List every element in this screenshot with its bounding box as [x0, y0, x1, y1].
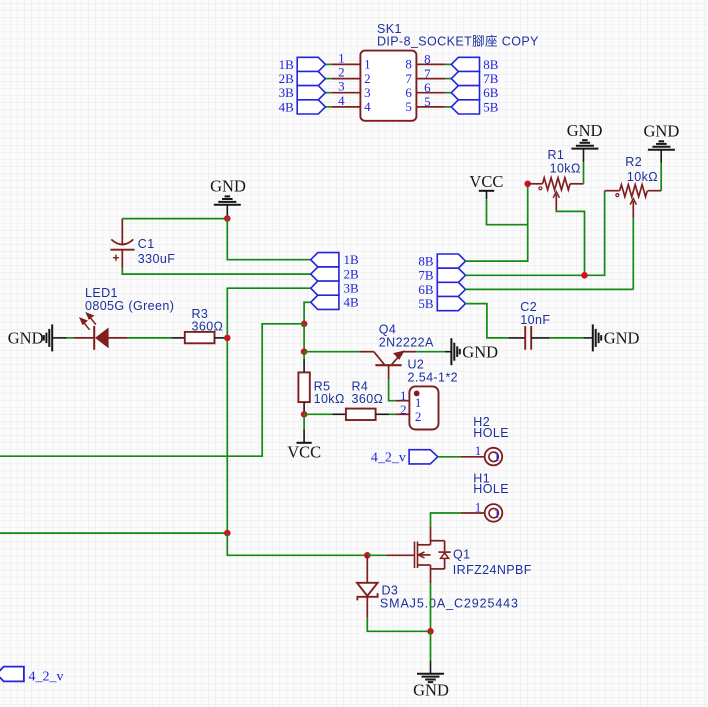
svg-text:1: 1: [400, 388, 407, 403]
svg-text:2B: 2B: [279, 71, 295, 86]
wire 5B jog to C2: [465, 304, 508, 338]
resistor R5: [303, 359, 305, 373]
U2 pin1 marker dot: [414, 391, 420, 397]
wire R2 wiper to 6B: [632, 218, 634, 290]
svg-text:10kΩ: 10kΩ: [314, 392, 345, 406]
wire gate node jog: [227, 533, 367, 555]
svg-text:Q4: Q4: [379, 322, 396, 336]
svg-text:GND: GND: [8, 328, 44, 347]
svg-text:GND: GND: [462, 342, 498, 361]
resistor R4: [332, 413, 346, 415]
svg-text:SMAJ5.0A_C2925443: SMAJ5.0A_C2925443: [380, 597, 519, 611]
diode D3: [366, 555, 368, 583]
wire R2 right to GND: [660, 163, 662, 191]
potentiometer R1: [528, 183, 543, 185]
svg-text:GND: GND: [644, 121, 680, 140]
wire to bottom GND: [430, 631, 432, 660]
port flag 1B at SK1: [297, 57, 325, 71]
wire segments to SK1 right flags: [445, 64, 451, 107]
port flag 8B mid: [437, 254, 465, 268]
LED LED1: [73, 337, 94, 339]
hole H1: [461, 512, 485, 514]
svg-text:4_2_v: 4_2_v: [371, 451, 406, 466]
wire 4B node to left branch: [0, 324, 304, 456]
wire Q4 emitter to GND: [416, 351, 445, 353]
wire left edge to gate node: [0, 532, 227, 534]
port flag 2B mid: [311, 267, 339, 281]
SK1 pin numbers left: [338, 50, 345, 108]
svg-text:360Ω: 360Ω: [352, 392, 384, 406]
svg-text:0805G (Green): 0805G (Green): [85, 299, 174, 313]
svg-text:1: 1: [338, 50, 345, 65]
capacitor C1: [121, 219, 123, 245]
svg-text:8B: 8B: [483, 57, 499, 72]
wire C1 top to GND junction: [122, 218, 227, 220]
port flag 3B at SK1: [297, 86, 325, 100]
svg-text:1B: 1B: [344, 252, 360, 267]
svg-text:3: 3: [364, 85, 371, 100]
svg-text:Q1: Q1: [453, 548, 470, 562]
svg-text:C1: C1: [138, 237, 155, 251]
junction dot R5 bottom node: [301, 411, 308, 418]
port flag 7B mid: [437, 268, 465, 282]
SK1 pin names left: [364, 57, 371, 115]
connector U2 pin 1: [395, 400, 409, 402]
svg-text:5B: 5B: [483, 99, 499, 114]
svg-text:LED1: LED1: [85, 286, 118, 300]
connector SK1 left pins 1-4: [332, 64, 361, 107]
wire GND node down to 1B: [227, 219, 310, 260]
wire node to R4: [304, 413, 332, 415]
wire D3 to bottom node: [367, 618, 430, 631]
connector U2 pin 2: [395, 413, 409, 415]
svg-text:3B: 3B: [279, 85, 295, 100]
SK1 pin numbers right: [424, 52, 431, 110]
svg-text:7B: 7B: [418, 268, 434, 283]
svg-text:4: 4: [338, 93, 345, 108]
svg-text:6B: 6B: [418, 282, 434, 297]
ground symbol top: [214, 196, 241, 204]
net flag 4_2_v bottom left: [0, 667, 24, 682]
svg-text:5: 5: [424, 94, 431, 109]
svg-text:6B: 6B: [483, 85, 499, 100]
hole H2: [461, 456, 485, 458]
wire H1 to Q1 drain: [431, 513, 461, 526]
wire to Q1 gate: [367, 554, 386, 556]
svg-text:1: 1: [475, 443, 482, 458]
svg-text:6: 6: [405, 85, 412, 100]
wire 3B to left vertical: [227, 288, 310, 338]
svg-text:GND: GND: [210, 177, 246, 196]
wire 8B up to R1 node: [465, 184, 527, 261]
svg-text:4_2_v: 4_2_v: [29, 670, 64, 685]
svg-text:D3: D3: [382, 583, 399, 597]
connector SK1 body: [360, 51, 416, 121]
svg-text:R2: R2: [625, 155, 642, 169]
wire GND to LED: [67, 337, 74, 339]
svg-text:2: 2: [364, 71, 371, 86]
svg-text:3B: 3B: [344, 281, 360, 296]
svg-text:8: 8: [405, 57, 412, 72]
wire VCC jog to R1: [487, 199, 528, 225]
port flag 5B at SK1: [451, 100, 479, 114]
potentiometer R2: [605, 190, 620, 192]
junction dot left vertical bottom: [224, 530, 231, 537]
ground symbol GND2: [648, 141, 675, 149]
resistor R3: [171, 337, 185, 339]
svg-text:7: 7: [424, 66, 431, 81]
svg-text:4: 4: [364, 99, 371, 114]
port flag 5B mid: [437, 297, 465, 311]
svg-text:8: 8: [424, 52, 431, 67]
port flag 4B at SK1: [297, 100, 325, 114]
ground symbol left: [44, 324, 52, 351]
svg-text:7B: 7B: [483, 71, 499, 86]
port flag 2B at SK1: [297, 72, 325, 86]
svg-text:8B: 8B: [418, 254, 434, 269]
svg-text:330uF: 330uF: [138, 252, 175, 266]
svg-text:1B: 1B: [279, 57, 295, 72]
port flag 6B at SK1: [451, 86, 479, 100]
svg-text:C2: C2: [520, 300, 537, 314]
svg-text:1: 1: [494, 505, 501, 520]
svg-text:HOLE: HOLE: [473, 426, 509, 440]
svg-text:360Ω: 360Ω: [192, 320, 224, 334]
capacitor C2: [508, 337, 525, 339]
svg-text:10kΩ: 10kΩ: [550, 161, 581, 175]
svg-text:HOLE: HOLE: [473, 482, 509, 496]
wire R1 wiper jog to 7B: [556, 211, 584, 276]
junction dot wiper/7B: [581, 272, 588, 279]
transistor Q1: [386, 554, 414, 556]
wire node down to VCC: [303, 414, 305, 429]
svg-text:2N2222A: 2N2222A: [379, 335, 434, 349]
wire segments to SK1 left flags: [325, 64, 332, 107]
wire R4 to U2 pin2: [389, 413, 395, 415]
port flag 4B mid: [311, 295, 339, 309]
wire base node to Q4: [304, 351, 359, 353]
ground symbol C2 right: [593, 324, 601, 351]
svg-text:5: 5: [405, 99, 412, 114]
power VCC mid: [303, 429, 305, 443]
wire Q4 base to U2 pin1: [389, 379, 396, 400]
svg-text:7: 7: [405, 71, 412, 86]
wire Q1 source down: [430, 583, 432, 631]
svg-text:10kΩ: 10kΩ: [627, 170, 658, 184]
svg-text:4B: 4B: [344, 295, 360, 310]
junction dot base node: [301, 348, 308, 355]
svg-text:1: 1: [415, 395, 422, 410]
svg-text:1: 1: [475, 499, 482, 514]
wire 6B: [465, 288, 633, 290]
junction dot bottom: [427, 628, 434, 635]
svg-text:1: 1: [494, 449, 501, 464]
svg-text:DIP-8_SOCKET腳座 COPY: DIP-8_SOCKET腳座 COPY: [377, 33, 539, 48]
junction dot R1 left: [524, 181, 531, 188]
ground symbol Q4: [451, 338, 459, 365]
svg-text:2B: 2B: [344, 267, 360, 282]
wire 7B to R2 left: [465, 191, 604, 276]
wire 4_2_v to H2: [438, 456, 461, 458]
svg-text:6: 6: [424, 80, 431, 95]
port flag 7B at SK1: [451, 72, 479, 86]
svg-text:2: 2: [415, 409, 422, 424]
net flag 4_2_v mid: [409, 450, 438, 464]
svg-text:R1: R1: [548, 148, 565, 162]
svg-text:1: 1: [364, 57, 371, 72]
svg-text:GND: GND: [604, 328, 640, 347]
junction dot at GND/C1 node: [224, 215, 231, 222]
ground symbol GND1: [571, 140, 598, 148]
connector SK1 right pins 8-5: [416, 64, 445, 107]
svg-text:GND: GND: [567, 121, 603, 140]
svg-text:5B: 5B: [418, 296, 434, 311]
svg-text:2.54-1*2: 2.54-1*2: [408, 370, 458, 384]
junction dot 4B node: [301, 321, 308, 328]
port flag 8B at SK1: [451, 57, 479, 71]
svg-text:2: 2: [338, 65, 345, 80]
svg-text:3: 3: [338, 79, 345, 94]
svg-text:GND: GND: [413, 680, 449, 699]
wire node down to base node: [303, 324, 305, 352]
junction dot R3 node: [224, 335, 231, 342]
port flag 1B mid: [311, 253, 339, 267]
svg-text:2: 2: [400, 402, 407, 417]
svg-text:VCC: VCC: [469, 172, 503, 191]
SK1 pin names right: [405, 57, 412, 115]
wire R1 right to GND: [583, 162, 585, 184]
svg-text:10nF: 10nF: [520, 313, 550, 327]
wire left vertical R3 node down: [226, 338, 228, 533]
wire base node down to R5: [303, 352, 305, 359]
svg-text:4B: 4B: [279, 99, 295, 114]
wire C2 to GND: [549, 337, 583, 339]
transistor Q4: [360, 351, 374, 353]
wire C1 bottom to 2B: [122, 268, 310, 274]
connector U2 body: [409, 386, 438, 429]
wire LED to R3: [128, 337, 172, 339]
wire 4B jog to node: [304, 302, 311, 324]
port flag 3B mid: [311, 281, 339, 295]
junction dot D3 top: [364, 552, 371, 559]
svg-text:IRFZ24NPBF: IRFZ24NPBF: [453, 563, 532, 577]
ground symbol bottom: [417, 674, 444, 682]
svg-text:VCC: VCC: [287, 442, 321, 461]
port flag 6B mid: [437, 282, 465, 296]
